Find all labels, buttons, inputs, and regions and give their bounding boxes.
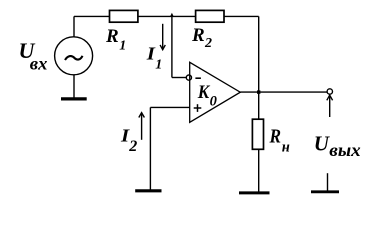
svg-text:н: н <box>282 140 290 156</box>
svg-text:U: U <box>314 131 331 155</box>
svg-text:R: R <box>191 25 205 46</box>
svg-text:вых: вых <box>329 140 360 160</box>
svg-text:вх: вх <box>30 54 48 74</box>
svg-text:2: 2 <box>204 36 212 51</box>
svg-text:1: 1 <box>119 38 126 53</box>
svg-text:K: K <box>197 82 211 103</box>
svg-text:0: 0 <box>210 93 217 109</box>
svg-text:R: R <box>105 26 119 47</box>
svg-text:R: R <box>269 126 281 148</box>
svg-text:2: 2 <box>128 138 137 155</box>
svg-text:1: 1 <box>155 58 162 73</box>
